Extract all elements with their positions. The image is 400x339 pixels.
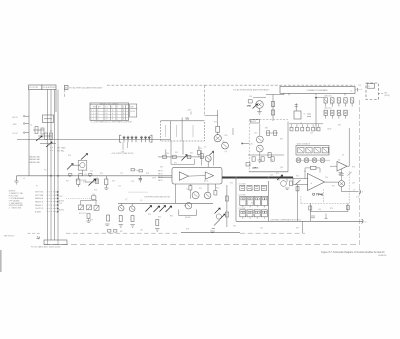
relay contact box K4	[296, 143, 329, 155]
transistor Q7	[129, 203, 135, 211]
A3 assembly left dashed border	[205, 85, 219, 115]
signal list rows	[35, 191, 59, 213]
svg-text:C81: C81	[260, 228, 263, 230]
svg-text:C40: C40	[270, 175, 273, 177]
svg-text:Figure 8-7. Schematic Diagram: Figure 8-7. Schematic Diagram of Vertica…	[321, 251, 385, 254]
svg-text:R28: R28	[146, 173, 149, 175]
svg-text:4. * SELECTED: 4. * SELECTED	[9, 208, 22, 210]
svg-text:SEE: SEE	[130, 107, 133, 109]
cable caption	[31, 246, 61, 249]
resistor row A1R1-R5	[324, 94, 354, 106]
svg-text:MANUAL BAL: MANUAL BAL	[29, 156, 40, 159]
svg-text:U4: U4	[342, 155, 344, 157]
assembly label box A2	[64, 86, 68, 90]
U3 output wire	[325, 181, 339, 183]
svg-text:R20: R20	[100, 173, 103, 175]
cable wire 4	[57, 90, 59, 241]
shunt component below bus	[95, 178, 98, 184]
figure page number	[379, 255, 388, 257]
svg-text:C13: C13	[84, 174, 87, 176]
svg-text:R19: R19	[66, 181, 69, 183]
bias resistor R15	[216, 110, 220, 135]
svg-text:VERT BAL: VERT BAL	[35, 194, 44, 197]
svg-text:RANGE B: RANGE B	[35, 200, 44, 203]
svg-text:K3: K3	[251, 216, 253, 218]
svg-text:C12: C12	[90, 171, 93, 173]
A3 dark ref label	[247, 105, 252, 107]
dashed border right of connector board	[355, 89, 362, 91]
connector board box	[280, 87, 355, 94]
svg-text:(NOTE): (NOTE)	[59, 201, 65, 203]
svg-text:P/O A2 VERTICAL AMPLIFIER ASSY: P/O A2 VERTICAL AMPLIFIER ASSY	[69, 86, 103, 89]
input box left edge	[28, 90, 30, 176]
node wire x316	[315, 97, 324, 131]
U4 wires	[330, 128, 349, 166]
feedback bracket	[179, 210, 197, 216]
svg-text:R90: R90	[352, 167, 355, 169]
svg-text:W2: W2	[384, 92, 387, 94]
solid lower-right wires	[303, 203, 348, 233]
svg-text:SEE NOTE 3: SEE NOTE 3	[4, 236, 14, 238]
svg-text:L: L	[117, 116, 118, 118]
bus labels below	[76, 180, 87, 184]
svg-text:12: 12	[365, 221, 367, 223]
svg-text:(NOTE): (NOTE)	[59, 210, 65, 212]
svg-text:RT1 RT2: RT1 RT2	[79, 213, 86, 215]
thermistor network	[79, 201, 100, 215]
logic truth table	[90, 102, 129, 120]
svg-text:W3: W3	[120, 231, 123, 233]
svg-text:Q12: Q12	[254, 133, 257, 135]
op-amp U3	[308, 174, 325, 191]
svg-text:LOW FREQ COMPENSATION (NOTE 4: LOW FREQ COMPENSATION (NOTE 4)	[270, 218, 301, 221]
main signal bus output	[222, 177, 293, 179]
svg-text:DC IN: DC IN	[13, 133, 19, 135]
Q16 output wire	[342, 187, 359, 192]
connector J1 inner box	[367, 84, 374, 89]
svg-text:1 0 L H: 1 0 L H	[91, 116, 99, 118]
svg-text:GND: GND	[13, 124, 18, 126]
output stage Q15	[277, 175, 293, 189]
q cluster small marks	[210, 214, 221, 232]
svg-text:8-9/8-10: 8-9/8-10	[379, 255, 388, 257]
op-amp box bottom pins	[176, 184, 217, 203]
svg-text:P/O W1 CABLE ASSY (04261-61601: P/O W1 CABLE ASSY (04261-61601)	[31, 246, 61, 249]
emitter follower Q16	[338, 181, 344, 187]
sub bus wire	[118, 202, 213, 204]
U1 pin wire mid	[182, 141, 184, 155]
svg-text:A2U2: A2U2	[204, 180, 208, 183]
svg-text:MANUAL BAL: MANUAL BAL	[29, 158, 40, 161]
coupling parts above bus	[131, 169, 142, 172]
main signal bus left	[17, 176, 173, 177]
svg-text:R30: R30	[160, 167, 163, 169]
assembly label box P/O A1	[42, 85, 56, 90]
svg-text:C14: C14	[120, 173, 123, 175]
svg-text:RANGE C: RANGE C	[35, 204, 44, 207]
svg-text:P1: P1	[36, 186, 38, 188]
component reference labels	[36, 104, 359, 232]
cable wire 2	[50, 90, 52, 241]
output connector arc	[353, 190, 363, 194]
svg-text:Q7: Q7	[125, 199, 127, 201]
svg-text:Q16: Q16	[352, 183, 355, 185]
divider resistor R26	[77, 176, 80, 187]
svg-text:C24: C24	[186, 188, 189, 190]
A1R label above	[359, 85, 362, 87]
svg-text:R51: R51	[199, 188, 202, 190]
transformer T1	[294, 103, 311, 119]
A2 assembly dashed top border	[107, 84, 205, 86]
svg-text:R2: R2	[330, 104, 332, 106]
bottom dash-dot line	[28, 232, 306, 235]
svg-text:*L = LOW STATE (0V), H = HIGH: *L = LOW STATE (0V), H = HIGH STATE (+5V…	[91, 121, 133, 124]
range relay box K1-K3	[236, 178, 269, 222]
svg-text:K2: K2	[251, 203, 253, 205]
input box right edge	[55, 90, 57, 113]
feedback bottom wire	[236, 220, 363, 222]
lamp row DS1-DS4	[296, 158, 330, 163]
svg-text:Q6: Q6	[140, 200, 142, 202]
svg-text:RANGE A: RANGE A	[35, 197, 44, 200]
svg-text:+15V SUPPLY (SEE NOTE): +15V SUPPLY (SEE NOTE)	[111, 153, 134, 155]
header pin row	[289, 124, 331, 131]
A3 assembly header text	[233, 88, 270, 91]
TP2 label	[313, 192, 324, 196]
right boundary wire	[359, 100, 361, 245]
transistor Q5	[200, 151, 213, 168]
svg-text:R23: R23	[94, 190, 97, 192]
svg-text:A2: A2	[65, 87, 67, 90]
svg-text:8: 8	[362, 192, 363, 194]
svg-text:VERT SIG: VERT SIG	[35, 192, 44, 194]
svg-text:L: L	[117, 110, 118, 112]
svg-text:SET BAL: SET BAL	[57, 149, 64, 152]
svg-text:F: F	[117, 107, 118, 109]
bottom long dashed line	[44, 244, 360, 246]
bus series components	[69, 174, 92, 176]
feedback wire label	[270, 218, 301, 221]
svg-text:Q14: Q14	[280, 167, 283, 169]
capacitor row A1C1-C4	[324, 107, 347, 119]
IC U1 label	[186, 117, 190, 120]
svg-text:R24: R24	[112, 181, 115, 183]
svg-text:R85: R85	[338, 125, 341, 127]
svg-text:1 0 L H: 1 0 L H	[91, 119, 99, 121]
U1 pin wire left	[170, 141, 172, 159]
svg-text:1 0 L H: 1 0 L H	[91, 113, 99, 115]
W2 cable label	[384, 92, 390, 96]
pot R34	[166, 206, 172, 212]
svg-text:Q5: Q5	[204, 147, 206, 149]
svg-text:Q4: Q4	[225, 151, 227, 153]
assembly label box P/O W1	[29, 85, 42, 90]
IC U1 dashed box	[161, 121, 205, 141]
right cluster diag pots	[214, 185, 228, 227]
op-amp box input labels	[158, 171, 163, 183]
svg-text:A1C1-C4: A1C1-C4	[325, 107, 332, 110]
figure title	[321, 251, 385, 254]
svg-text:16: 16	[351, 91, 353, 93]
svg-text:R70: R70	[230, 183, 233, 185]
svg-text:L: L	[117, 113, 118, 115]
svg-text:C80: C80	[140, 230, 143, 232]
U3 feedback resistor	[305, 166, 320, 178]
diode row drop wires	[121, 142, 128, 153]
svg-text:C30: C30	[249, 96, 252, 98]
A2 assembly left dashed border	[64, 90, 66, 98]
U3 inverting feedback drop	[297, 185, 299, 222]
svg-text:RANGE LOGIC LEVELS: RANGE LOGIC LEVELS	[100, 102, 119, 105]
svg-text:P/O W1 CBL: P/O W1 CBL	[29, 87, 38, 89]
svg-text:DS1: DS1	[312, 160, 315, 162]
notes text block	[9, 191, 25, 210]
chop drive extended wire	[59, 194, 96, 212]
connector arc lower right	[358, 219, 366, 223]
svg-text:10: 10	[353, 190, 355, 192]
transistor Q4	[222, 128, 233, 153]
driver stage box with Q12 Q13	[242, 119, 289, 172]
svg-text:R73: R73	[296, 175, 299, 177]
svg-text:CHOPPER DRIVE (SEE NOTE): CHOPPER DRIVE (SEE NOTE)	[144, 196, 170, 198]
svg-text:R61: R61	[148, 214, 151, 216]
note marker bottom left	[4, 236, 40, 240]
svg-text:CONNECTOR BOARD: CONNECTOR BOARD	[306, 89, 328, 92]
svg-text:33PF: 33PF	[152, 178, 156, 180]
svg-text:R82: R82	[280, 139, 283, 141]
svg-text:R31: R31	[174, 163, 177, 165]
capacitor C16	[139, 176, 142, 183]
svg-text:R2: R2	[50, 131, 52, 133]
svg-text:TP40: TP40	[316, 192, 324, 196]
input stub wires	[23, 115, 29, 133]
svg-text:R52: R52	[216, 187, 219, 189]
svg-text:R18: R18	[68, 155, 71, 157]
pot R33	[160, 206, 166, 212]
A3 input transistor Q11	[248, 96, 266, 114]
pot R32	[154, 206, 160, 212]
ground symbols row	[105, 224, 160, 231]
svg-text:R99: R99	[90, 220, 93, 222]
svg-text:R41: R41	[175, 152, 178, 154]
svg-text:E: E	[112, 107, 113, 109]
svg-text:1 0 L H: 1 0 L H	[91, 110, 99, 112]
transistor Q3	[214, 135, 221, 142]
svg-text:R96: R96	[186, 229, 189, 231]
supply label +15V mid	[187, 110, 192, 115]
pot R31	[146, 206, 152, 212]
truth table caption	[91, 121, 133, 124]
svg-text:Q13: Q13	[250, 144, 253, 146]
svg-text:C62: C62	[310, 133, 313, 135]
svg-text:AC IN: AC IN	[13, 116, 18, 119]
A3 assembly dashed top border	[205, 84, 356, 86]
svg-text:W1: W1	[44, 170, 47, 172]
emitter resistor R24	[104, 176, 108, 190]
svg-text:C1: C1	[30, 125, 32, 127]
connector J1 dashed box	[366, 83, 379, 100]
op-amp stage box A2U2	[172, 167, 222, 184]
U1 top pin	[181, 118, 183, 121]
scan edge artifact	[0, 250, 2, 272]
emitter resistor network	[107, 215, 159, 226]
connector board pins	[289, 88, 358, 95]
balance adjust transistor Q1	[67, 154, 88, 176]
svg-text:Q3: Q3	[222, 141, 224, 143]
svg-text:P/O A3 HORIZONTAL AMPLIFIER AS: P/O A3 HORIZONTAL AMPLIFIER ASSY	[233, 88, 270, 91]
svg-text:BLANK: BLANK	[35, 210, 42, 213]
svg-text:C15: C15	[118, 186, 121, 188]
bus junction marks	[23, 175, 91, 180]
svg-text:R80: R80	[265, 128, 268, 130]
lower-right small parts	[309, 206, 350, 219]
svg-text:R75: R75	[332, 186, 335, 188]
svg-text:A1R1-R5: A1R1-R5	[325, 94, 332, 97]
input terminal labels	[13, 116, 19, 135]
cable connector bottom	[44, 240, 67, 245]
svg-text:C3: C3	[340, 115, 342, 117]
A2 assembly header text	[69, 86, 103, 89]
svg-text:J2: J2	[300, 123, 302, 125]
U3 input wires	[293, 178, 308, 185]
manual bal text	[29, 156, 40, 164]
small parts above bottom line	[108, 230, 123, 233]
J1 wire	[379, 93, 384, 95]
svg-text:Q8 SEL: Q8 SEL	[185, 217, 191, 219]
svg-text:R15: R15	[214, 122, 217, 124]
op-amp U4	[337, 162, 347, 172]
table side box	[130, 104, 137, 117]
svg-text:C16: C16	[131, 181, 134, 183]
svg-text:A2J2: A2J2	[328, 127, 332, 130]
cable wire 3	[54, 90, 56, 241]
cable wire 1	[47, 90, 49, 241]
svg-text:R42: R42	[190, 152, 193, 154]
svg-text:R71: R71	[276, 173, 279, 175]
label above sub bus	[128, 192, 170, 198]
svg-text:C45: C45	[325, 177, 328, 179]
svg-text:L: L	[117, 119, 118, 121]
svg-text:C60: C60	[270, 160, 273, 162]
transistor Q6	[118, 203, 124, 211]
svg-text:CHOP DR: CHOP DR	[35, 208, 44, 210]
svg-text:R78: R78	[330, 208, 333, 210]
attenuator components	[30, 125, 56, 148]
svg-text:R43: R43	[199, 148, 202, 150]
ground symbol input	[14, 176, 18, 184]
svg-text:C50: C50	[318, 209, 321, 211]
U4 bias parts	[338, 159, 343, 174]
protection diode row CR1-CR6	[17, 135, 170, 142]
svg-text:C20: C20	[92, 194, 95, 196]
svg-text:A3R15: A3R15	[252, 167, 258, 170]
bias parts right	[296, 180, 301, 191]
A3 bias resistors	[266, 93, 284, 121]
supply label	[111, 153, 134, 155]
svg-text:(NOTE): (NOTE)	[384, 95, 390, 97]
svg-text:R97: R97	[296, 228, 299, 230]
lower left resistors	[86, 214, 90, 223]
svg-text:R95: R95	[233, 226, 236, 228]
svg-text:U3: U3	[304, 171, 306, 173]
svg-text:MANUAL BAL: MANUAL BAL	[29, 161, 40, 164]
svg-text:U4: U4	[338, 159, 340, 161]
svg-text:R63: R63	[170, 216, 173, 218]
svg-text:R40: R40	[166, 153, 169, 155]
svg-text:R62: R62	[158, 216, 161, 218]
trim pot R27	[85, 179, 96, 186]
Q16 collector parts	[339, 169, 351, 181]
dashed feedback wires	[301, 171, 349, 203]
svg-text:K1: K1	[251, 189, 253, 191]
svg-text:T1: T1	[304, 114, 306, 116]
svg-text:C70: C70	[356, 197, 359, 199]
gain trim network R10-R12	[158, 146, 205, 164]
balance labels	[50, 146, 66, 152]
svg-text:NOTE: NOTE	[130, 111, 134, 113]
attenuator resistor R1	[43, 115, 54, 123]
svg-text:J1: J1	[368, 86, 370, 88]
transistor Q9	[192, 192, 199, 199]
transistor Q10	[185, 192, 211, 219]
svg-text:SET GAIN: SET GAIN	[57, 146, 66, 149]
transistor Q8	[184, 203, 192, 209]
